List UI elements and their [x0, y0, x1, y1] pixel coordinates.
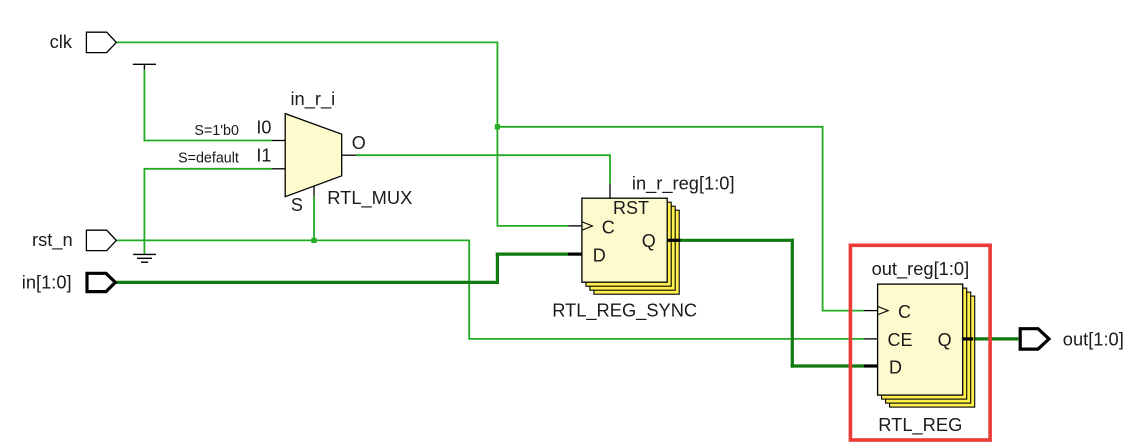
register out_reg[1:0] body	[878, 284, 963, 395]
svg-text:rst_n: rst_n	[32, 229, 73, 251]
wire clk: vertical clock column down to C row of in_r_reg	[496, 42, 498, 227]
svg-text:out_reg[1:0]: out_reg[1:0]	[872, 258, 970, 280]
wire rst_n branch: vertical up to mux select pin S	[313, 197, 315, 242]
wire in[1:0] bus: horizontal into D pin of in_r_reg	[496, 253, 568, 256]
port in[1:0] symbol (bus, thick)	[87, 273, 115, 291]
mux in_r_i (RTL_MUX) body	[285, 114, 342, 197]
wire mux O output: horizontal toward in_r_reg	[356, 154, 610, 156]
wire const0: horizontal into mux pin I1	[144, 168, 272, 170]
mux pin stub O	[342, 154, 357, 156]
svg-text:RTL_REG_SYNC: RTL_REG_SYNC	[552, 299, 697, 321]
svg-text:O: O	[352, 133, 366, 153]
register in_r_reg[1:0] (RTL_REG_SYNC) stacked pages	[586, 202, 679, 294]
wire out bus: horizontal from out_reg Q to out port	[973, 337, 1018, 340]
svg-text:RTL_MUX: RTL_MUX	[327, 187, 412, 209]
wire clk: horizontal into C pin of in_r_reg	[497, 225, 569, 227]
register out_reg[1:0] (RTL_REG) stacked pages	[882, 288, 975, 407]
port clk symbol	[86, 32, 116, 52]
svg-text:in_r_i: in_r_i	[291, 88, 336, 110]
wire in[1:0] bus: horizontal from in port	[116, 281, 500, 284]
svg-text:Q: Q	[642, 231, 656, 251]
wire clk branch: horizontal toward out_reg	[497, 126, 824, 128]
svg-text:S=1'b0: S=1'b0	[194, 123, 239, 139]
svg-text:C: C	[602, 218, 615, 238]
node junction rst_n / S	[311, 238, 316, 243]
in_r_reg pin stub D (thick)	[568, 253, 582, 256]
wire rst_n: horizontal from rst_n port	[116, 239, 470, 241]
svg-text:RTL_REG: RTL_REG	[878, 414, 962, 436]
wire rst_n: vertical down to CE row	[468, 240, 470, 340]
svg-text:D: D	[593, 246, 606, 266]
out_reg clock wedge	[878, 306, 889, 314]
wire const1: vertical from T-bar down	[143, 70, 145, 141]
svg-text:CE: CE	[888, 330, 913, 350]
svg-text:I0: I0	[256, 118, 271, 138]
highlight box around out_reg	[850, 245, 990, 440]
svg-text:Q: Q	[938, 330, 952, 350]
port rst_n symbol	[86, 230, 116, 250]
in_r_reg clock wedge	[582, 222, 593, 230]
wire in[1:0] bus: vertical jog up	[496, 253, 499, 285]
mux pin stub I0	[272, 140, 286, 142]
out_reg pin stub C	[864, 310, 878, 312]
svg-text:in_r_reg[1:0]: in_r_reg[1:0]	[632, 173, 735, 195]
svg-text:clk: clk	[50, 31, 73, 52]
in_r_reg pin stub RST	[609, 184, 611, 199]
wire rst_n: horizontal into CE pin of out_reg	[468, 338, 863, 340]
node junction on clk net	[495, 124, 500, 129]
in_r_reg pin stub Q (thick)	[667, 239, 680, 242]
wire in_r bus: horizontal from in_r_reg Q	[681, 239, 794, 242]
port out[1:0] symbol (bus, thick)	[1020, 329, 1049, 349]
svg-text:D: D	[889, 357, 902, 377]
svg-text:RST: RST	[613, 198, 649, 218]
out_reg pin stub D (thick)	[864, 364, 878, 367]
wire const0: vertical from ground up (crosses rst_n wire)	[143, 168, 145, 254]
wire clk: horizontal from clk port to clock column	[116, 41, 498, 43]
out_reg pin stub Q (thick)	[963, 337, 974, 340]
svg-text:C: C	[898, 302, 911, 322]
svg-text:in[1:0]: in[1:0]	[22, 272, 72, 293]
ground symbol	[133, 254, 156, 262]
mux pin stub I1	[272, 168, 286, 170]
wire in_r bus: vertical down to D row of out_reg	[791, 239, 794, 368]
wire mux O output: vertical down to RST pin of in_r_reg	[609, 154, 611, 183]
svg-text:I1: I1	[256, 145, 271, 165]
svg-text:S: S	[291, 195, 303, 215]
out_reg pin stub CE	[864, 338, 878, 340]
power const1 T-bar symbol	[133, 64, 156, 70]
wire const1: horizontal into mux pin I0	[144, 140, 272, 142]
wire clk branch: vertical down to C row of out_reg	[822, 126, 824, 311]
svg-text:out[1:0]: out[1:0]	[1063, 329, 1124, 350]
register in_r_reg[1:0] body	[582, 198, 667, 282]
in_r_reg pin stub C	[569, 225, 582, 227]
wire in_r bus: horizontal into D pin of out_reg	[791, 364, 864, 367]
wire clk branch: horizontal into C pin of out_reg	[822, 310, 864, 312]
mux pin stub S	[313, 186, 315, 197]
svg-text:S=default: S=default	[178, 151, 239, 167]
